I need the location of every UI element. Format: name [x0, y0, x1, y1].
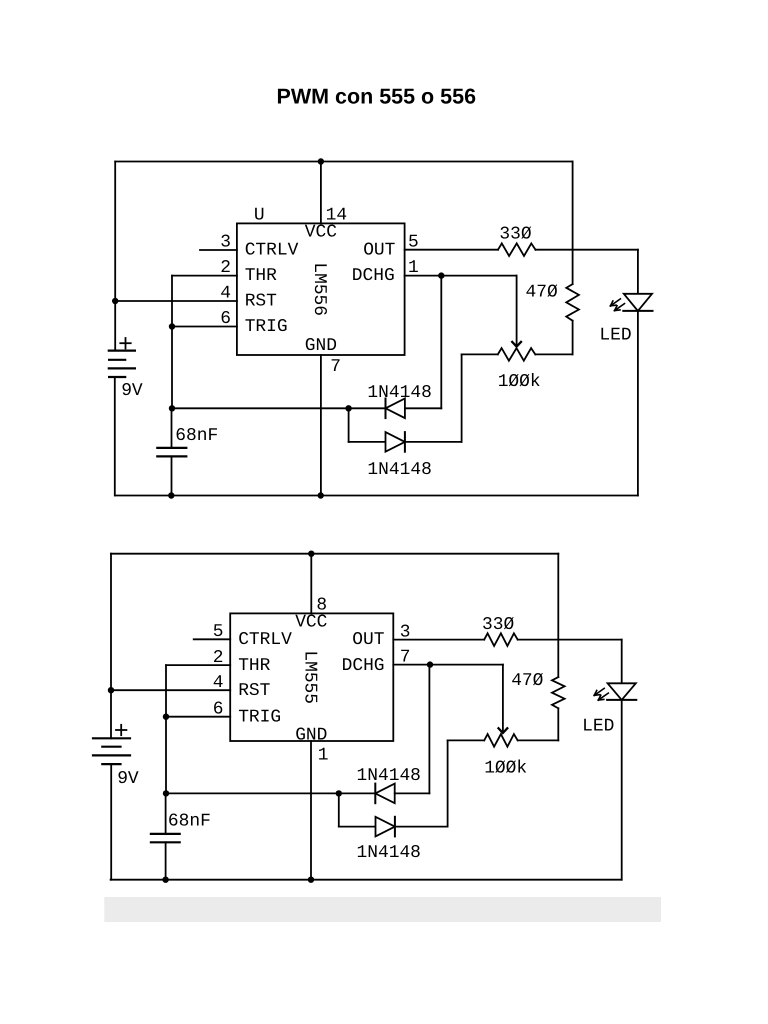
pin number 7 c2	[400, 647, 411, 667]
label 470 circuit 2	[511, 671, 543, 691]
svg-text:LED: LED	[582, 717, 614, 737]
IC U pin name THR	[245, 266, 277, 286]
junction RST on left rail c2	[108, 687, 114, 693]
svg-text:OUT: OUT	[363, 241, 395, 261]
junction VCC top rail	[318, 158, 324, 164]
IC U pin name VCC	[305, 222, 337, 242]
label 100k circuit 2	[484, 758, 527, 778]
wire wiper vertical	[516, 276, 518, 346]
label LED circuit 2	[582, 717, 614, 737]
wire D2 to riser	[405, 441, 462, 443]
svg-text:1N4148: 1N4148	[367, 460, 431, 480]
svg-text:U: U	[254, 206, 265, 226]
wire wiper vertical c2	[502, 665, 504, 733]
junction cap bottom on rail c2	[162, 877, 168, 883]
label 1N4148 lower	[367, 460, 431, 480]
wire CTRLV stub c2	[194, 638, 231, 640]
pin number 1	[408, 258, 419, 278]
junction TRIG	[169, 323, 175, 329]
wire THR-TRIG-node vertical c2	[165, 665, 167, 793]
svg-text:GND: GND	[305, 336, 337, 356]
junction DCHG	[438, 272, 444, 278]
junction cap bottom on rail	[168, 492, 174, 498]
svg-text:DCHG: DCHG	[342, 656, 385, 676]
potentiometer 100k circuit 2	[448, 734, 559, 747]
wire THR horizontal	[172, 275, 237, 277]
pin number 4 c2	[213, 673, 224, 693]
svg-text:47Ø: 47Ø	[526, 283, 558, 303]
svg-text:THR: THR	[245, 266, 277, 286]
wire VCC drop to pin 8	[310, 554, 312, 614]
label 1N4148 upper	[367, 383, 431, 403]
svg-text:RST: RST	[238, 681, 270, 701]
label 470 circuit 1	[526, 283, 558, 303]
resistor R 330 circuit 1	[498, 243, 536, 256]
IC U pin name OUT	[363, 241, 395, 261]
IC U pin name DCHG	[352, 266, 395, 286]
wire CTRLV stub	[200, 249, 237, 251]
svg-text:1N4148: 1N4148	[357, 766, 421, 786]
wire riser D5 to pot left	[447, 740, 449, 826]
svg-text:9V: 9V	[121, 381, 143, 401]
pin number 5 c2	[213, 622, 224, 642]
footer gray bar	[104, 897, 661, 922]
svg-text:PWM con 555 o 556: PWM con 555 o 556	[277, 84, 477, 108]
wire bottom rail (GND) circuit 1	[115, 495, 638, 497]
pin number 8	[316, 596, 327, 616]
pin number 3 c2	[400, 622, 411, 642]
IC U pin name TRIG	[245, 317, 288, 337]
pin number 2 c2	[213, 648, 224, 668]
diode D5 1N4148 pointing right	[376, 817, 395, 837]
title text	[277, 84, 477, 108]
svg-text:VCC: VCC	[295, 612, 327, 632]
IC U pin name GND	[305, 336, 337, 356]
svg-text:1N4148: 1N4148	[367, 383, 431, 403]
svg-text:7: 7	[330, 357, 341, 377]
junction GND on rail c2	[308, 877, 314, 883]
wire OUT to LED corner c2	[518, 640, 622, 684]
svg-text:TRIG: TRIG	[238, 707, 281, 727]
svg-text:33Ø: 33Ø	[482, 615, 514, 635]
svg-text:9V: 9V	[117, 769, 139, 789]
IC U designator	[254, 206, 265, 226]
wire to D4 anode	[339, 792, 376, 794]
diode D2 1N4148 pointing right	[386, 432, 405, 452]
wire TRIG horizontal c2	[166, 716, 230, 718]
junction node A (THR/cap/diodes)	[169, 405, 175, 411]
wire GND pin 1 down	[310, 741, 312, 880]
svg-text:1: 1	[318, 745, 329, 765]
wire riser D1 to DCHG	[440, 276, 442, 409]
IC LM555 box	[230, 613, 393, 741]
svg-text:LM555: LM555	[300, 650, 320, 704]
svg-text:THR: THR	[238, 656, 270, 676]
svg-text:TRIG: TRIG	[245, 317, 288, 337]
wire LED cathode down	[637, 311, 639, 496]
wire THR-TRIG-node vertical	[171, 276, 173, 409]
wire D4 to riser	[395, 792, 430, 794]
wire branch down to D2	[348, 408, 350, 442]
junction GND on rail	[318, 492, 324, 498]
junction diode branch c2	[336, 790, 342, 796]
svg-text:1ØØk: 1ØØk	[498, 372, 541, 392]
label 1N4148 upper c2	[357, 766, 421, 786]
svg-text:68nF: 68nF	[175, 426, 218, 446]
IC LM555 pin name THR	[238, 656, 270, 676]
IC U part name LM556 rotated	[309, 262, 329, 316]
IC LM555 part name rotated	[300, 650, 320, 704]
IC LM555 pin name OUT	[352, 630, 384, 650]
svg-text:OUT: OUT	[352, 630, 384, 650]
wire LED cathode down c2	[621, 700, 623, 880]
wiper arrowhead c2	[499, 728, 508, 733]
LED D3 circuit 1	[610, 294, 652, 311]
wire D5 to riser	[395, 826, 448, 828]
svg-text:RST: RST	[245, 292, 277, 312]
wire left rail lower c2	[110, 764, 112, 880]
wire riser D2 to pot left	[461, 354, 463, 442]
wire top rail (VCC) circuit 1	[115, 161, 572, 163]
label 68nF C2	[168, 811, 211, 831]
IC LM555 pin name RST	[238, 681, 270, 701]
pin number 3	[220, 233, 231, 253]
label 100k circuit 1	[498, 372, 541, 392]
wire RST from left rail c2	[111, 689, 230, 691]
label 330 circuit 1	[499, 225, 531, 245]
wire RST from left rail	[115, 300, 237, 302]
junction RST on left rail	[112, 298, 118, 304]
capacitor C2 68nF	[151, 793, 180, 879]
svg-text:68nF: 68nF	[168, 811, 211, 831]
junction diode branch	[345, 405, 351, 411]
junction TRIG c2	[163, 714, 169, 720]
pin number 14	[326, 206, 347, 226]
resistor R 470 circuit 1	[566, 162, 579, 355]
svg-text:LED: LED	[599, 326, 631, 346]
wire to D5	[339, 826, 376, 828]
svg-text:33Ø: 33Ø	[499, 225, 531, 245]
wire OUT to LED corner	[536, 250, 638, 294]
wire THR horizontal c2	[166, 664, 230, 666]
IC U LM556 box	[237, 223, 405, 355]
IC LM555 pin name GND	[295, 726, 327, 746]
pin number 5	[408, 233, 419, 253]
battery BT2 9V	[93, 725, 139, 789]
IC LM555 pin name CTRLV	[238, 630, 292, 650]
IC LM555 pin name VCC	[295, 612, 327, 632]
IC U pin name RST	[245, 292, 277, 312]
wire node B to diodes	[166, 792, 339, 794]
IC LM555 pin name TRIG	[238, 707, 281, 727]
wire DCHG horizontal	[405, 275, 517, 277]
pin number 2	[220, 258, 231, 278]
junction VCC top rail 2	[308, 551, 314, 557]
svg-text:1N4148: 1N4148	[357, 843, 421, 863]
label 68nF C1	[175, 426, 218, 446]
svg-text:47Ø: 47Ø	[511, 671, 543, 691]
wire left rail upper	[114, 162, 116, 351]
wire D1 to riser	[405, 407, 441, 409]
wire GND pin 7 down	[320, 355, 322, 496]
svg-text:VCC: VCC	[305, 222, 337, 242]
junction DCHG c2	[427, 661, 433, 667]
wire left rail upper c2	[110, 554, 112, 739]
diode D1 1N4148 pointing left	[386, 399, 405, 419]
diode D4 1N4148 pointing left	[375, 784, 394, 804]
LED D6 circuit 2	[594, 683, 636, 700]
junction node B (THR/cap/diodes)	[163, 790, 169, 796]
svg-text:CTRLV: CTRLV	[245, 241, 299, 261]
resistor R 470 circuit 2	[552, 554, 565, 741]
label 1N4148 lower c2	[357, 843, 421, 863]
battery BT1 9V	[109, 338, 143, 401]
pin number 6	[220, 309, 231, 329]
wire top rail (VCC) circuit 2	[111, 553, 558, 555]
wire VCC drop to pin 14	[320, 162, 322, 224]
wire riser D4 to DCHG	[428, 665, 430, 794]
wire node A to diodes	[172, 407, 349, 409]
svg-text:1ØØk: 1ØØk	[484, 758, 527, 778]
wire branch down to D5	[338, 793, 340, 826]
pin number 7	[330, 357, 341, 377]
svg-text:CTRLV: CTRLV	[238, 630, 292, 650]
svg-text:DCHG: DCHG	[352, 266, 395, 286]
wire bottom rail (GND) circuit 2	[111, 879, 622, 881]
wire DCHG horizontal c2	[393, 664, 503, 666]
IC U pin name CTRLV	[245, 241, 299, 261]
pin number 4	[220, 284, 231, 304]
wire OUT pin 5 segment	[405, 249, 498, 251]
svg-text:LM556: LM556	[309, 262, 329, 316]
potentiometer 100k circuit 1	[462, 348, 573, 361]
wire left rail lower	[114, 377, 116, 496]
pin number 1 c2	[318, 745, 329, 765]
resistor R 330 circuit 2	[484, 633, 518, 646]
capacitor C1 68nF	[157, 408, 186, 495]
wire TRIG horizontal	[172, 326, 237, 328]
pin number 6 c2	[213, 700, 224, 720]
wiper arrowhead	[512, 342, 521, 347]
label LED circuit 1	[599, 326, 631, 346]
label 330 circuit 2	[482, 615, 514, 635]
wire to D2	[349, 441, 386, 443]
wire to D1 anode	[349, 407, 386, 409]
IC LM555 pin name DCHG	[342, 656, 385, 676]
wire OUT pin 3 segment	[393, 639, 484, 641]
